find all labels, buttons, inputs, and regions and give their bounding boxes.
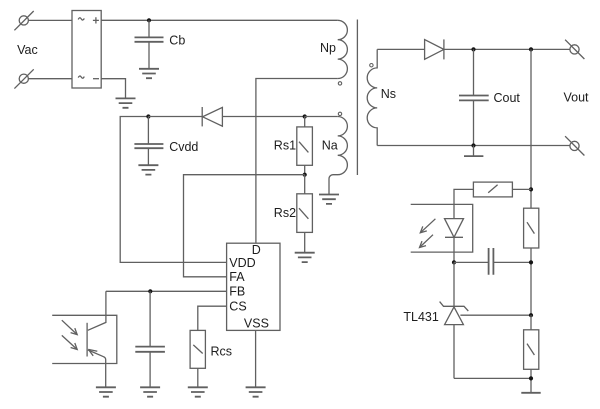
ground below Cvdd: [138, 165, 158, 174]
node Cout top: [471, 47, 475, 51]
bridge rectifier B1: [72, 11, 101, 89]
svg-text:Rs2: Rs2: [274, 206, 296, 220]
svg-text:FA: FA: [229, 270, 245, 284]
node bias resistor top: [529, 187, 533, 191]
svg-text:CS: CS: [229, 300, 246, 314]
wire bridge minus output: [101, 79, 125, 99]
ground below Cb: [139, 69, 159, 78]
wire junction to FA pin: [184, 175, 305, 277]
capacitor Cvdd: [134, 117, 163, 166]
bridge symbol ~ bottom: [78, 76, 84, 78]
phototransistor Q1: [87, 291, 106, 387]
node LED cathode: [452, 260, 456, 264]
phase dot Np: [338, 82, 341, 85]
wire FB pin: [106, 290, 227, 292]
node feedback divider top: [529, 47, 533, 51]
wire aux rail corner to VDD: [120, 117, 226, 263]
svg-text:Rcs: Rcs: [211, 344, 233, 358]
wire node to Na winding: [305, 116, 338, 118]
wire bridge plus output rail to Np: [101, 19, 338, 21]
resistor Rcs: [190, 330, 205, 387]
wire Cvdd node to diode: [148, 116, 202, 118]
wire VSS pin to ground: [255, 330, 257, 387]
svg-text:VDD: VDD: [229, 256, 255, 270]
capacitor FB filter: [135, 291, 165, 387]
ground below Rs2: [295, 253, 315, 262]
node bulk rail / Cb: [147, 18, 151, 22]
node Rs1 top: [303, 114, 307, 118]
capacitor Cout: [459, 49, 489, 145]
resistor divider lower: [524, 315, 539, 393]
svg-text:Np: Np: [320, 41, 336, 55]
ground below VSS: [246, 387, 266, 396]
ground below phototransistor: [96, 387, 116, 396]
phase dot Na: [338, 112, 341, 115]
winding Ns: [367, 49, 377, 145]
winding Na: [329, 117, 347, 195]
node FB filter cap: [148, 289, 152, 293]
ground at bridge minus: [116, 98, 136, 107]
svg-text:Ns: Ns: [381, 87, 396, 101]
op-amp controller U1 box: [227, 243, 280, 330]
svg-text:FB: FB: [229, 284, 245, 298]
wire bottom terminal to bridge: [28, 78, 72, 80]
wire bias resistor to LED anode: [454, 189, 473, 218]
wire TL431 anode to divider bottom: [454, 377, 531, 379]
resistor Rs1: [297, 117, 313, 175]
light arrow 2 out of LED: [420, 235, 434, 248]
phase dot Ns: [370, 63, 373, 66]
winding Np: [338, 20, 348, 78]
ground below Na: [319, 195, 339, 204]
wire top terminal to bridge: [28, 19, 72, 21]
resistor Rs2: [297, 175, 313, 253]
wire output rail to feedback divider: [530, 49, 532, 208]
ground below FB cap: [140, 387, 160, 396]
bridge symbol minus: [93, 78, 99, 80]
bridge symbol +: [93, 17, 99, 23]
terminal Vac bottom: [14, 69, 33, 88]
wire TL431 ref to divider: [460, 314, 531, 316]
resistor divider upper: [524, 208, 539, 315]
svg-text:Rs1: Rs1: [274, 139, 296, 153]
wire TL431 cathode: [453, 262, 455, 306]
terminal Vac top: [14, 11, 33, 30]
svg-text:Cb: Cb: [169, 33, 185, 47]
optocoupler LED box: [411, 204, 473, 252]
node cap right: [529, 260, 533, 264]
optocoupler phototransistor box: [52, 315, 117, 363]
TL431 shunt regulator: [440, 302, 469, 379]
svg-text:Cout: Cout: [494, 91, 521, 105]
wire diode to Rs1 node: [222, 116, 304, 118]
svg-text:Vout: Vout: [564, 90, 590, 104]
ground below Rcs: [188, 387, 208, 396]
svg-text:TL431: TL431: [403, 310, 438, 324]
transformer core: [356, 20, 358, 176]
capacitor Cb: [135, 20, 164, 68]
LED of optocoupler: [445, 219, 464, 263]
node divider bottom: [529, 376, 533, 380]
wire diode to output rail: [444, 48, 570, 50]
node divider mid: [529, 313, 533, 317]
svg-text:Cvdd: Cvdd: [169, 140, 198, 154]
terminal Vout plus: [565, 40, 584, 59]
svg-text:Na: Na: [322, 138, 338, 152]
resistor bias series: [473, 182, 531, 197]
wire CS pin to Rcs: [198, 306, 227, 330]
wire Ns top to diode: [377, 48, 424, 50]
wire Ns bottom output rail: [377, 145, 570, 147]
light arrow 1 into phototransistor: [62, 320, 77, 334]
ground secondary at Cout: [464, 146, 483, 157]
light arrow 2 into phototransistor: [62, 335, 77, 349]
light arrow 1 out of LED: [420, 219, 435, 233]
svg-text:Vac: Vac: [17, 43, 38, 57]
bridge symbol ~ top: [78, 18, 84, 20]
diode D2 secondary rectifier: [425, 39, 444, 59]
node Cout bottom: [471, 143, 475, 147]
ground secondary bottom: [521, 392, 540, 394]
capacitor feedback: [454, 248, 531, 275]
wire Np bottom to IC drain D: [256, 79, 338, 244]
svg-text:VSS: VSS: [244, 316, 269, 330]
node Rs1 Rs2 junction: [303, 173, 307, 177]
diode D1 aux supply: [202, 107, 222, 126]
node Cvdd: [146, 114, 150, 118]
terminal Vout minus: [565, 136, 584, 155]
